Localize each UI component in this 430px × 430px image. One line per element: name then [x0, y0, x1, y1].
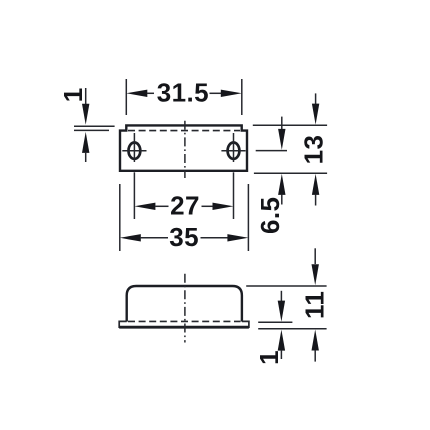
svg-text:31.5: 31.5: [157, 77, 209, 107]
svg-text:11: 11: [300, 291, 330, 319]
svg-text:13: 13: [299, 135, 329, 165]
svg-text:27: 27: [170, 190, 200, 220]
svg-text:6.5: 6.5: [255, 197, 285, 234]
svg-text:1: 1: [58, 87, 88, 102]
svg-text:35: 35: [169, 222, 199, 252]
svg-text:1: 1: [254, 350, 284, 365]
